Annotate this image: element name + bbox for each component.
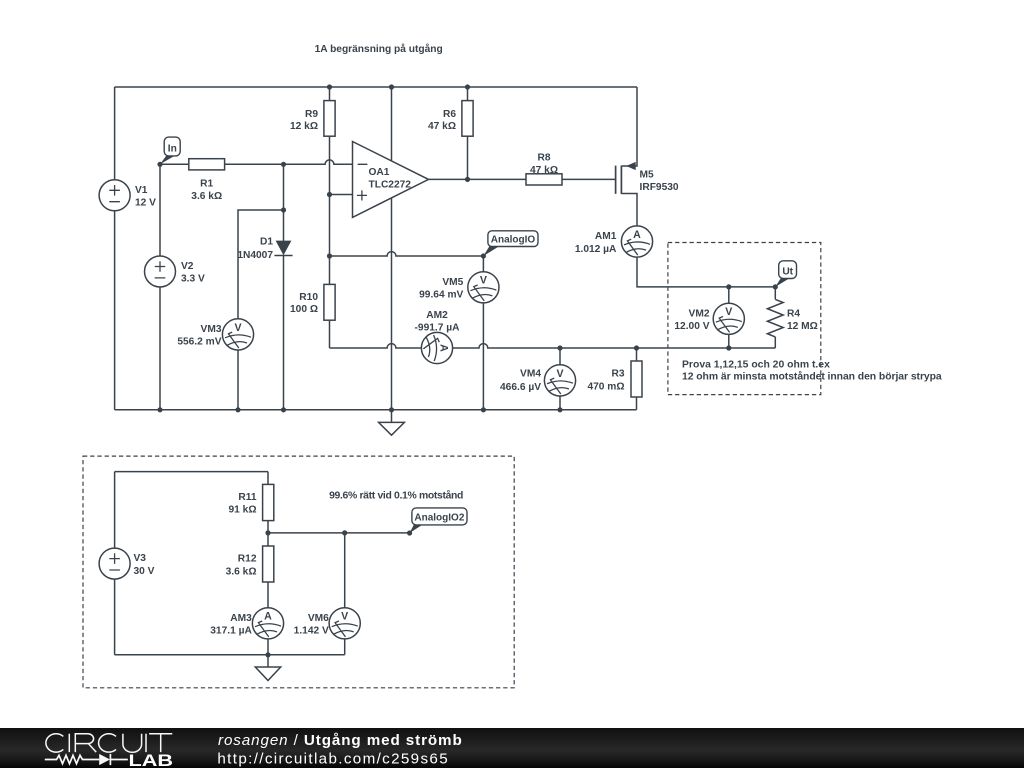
svg-text:IRF9530: IRF9530 <box>640 182 679 193</box>
svg-text:AM3: AM3 <box>230 613 252 624</box>
wire AM2 run y=348 with hops <box>330 344 776 348</box>
wire VM6 column <box>344 533 346 655</box>
svg-text:3.6 kΩ: 3.6 kΩ <box>226 566 257 577</box>
svg-text:V2: V2 <box>181 261 194 272</box>
voltage source V3 <box>99 548 155 579</box>
svg-text:12.00 V: 12.00 V <box>674 321 709 332</box>
svg-text:A: A <box>633 229 641 241</box>
svg-text:12 V: 12 V <box>135 198 156 209</box>
wire V3 stems <box>114 472 116 655</box>
wire bottom rail <box>115 409 637 411</box>
svg-text:AnalogIO: AnalogIO <box>491 235 536 246</box>
resistor R6 <box>428 101 473 137</box>
resistor R8 <box>526 153 562 185</box>
wire R9-R10 column <box>329 87 331 348</box>
svg-text:LAB: LAB <box>129 752 174 768</box>
resistor R1 <box>189 159 225 202</box>
svg-text:V3: V3 <box>134 553 147 564</box>
wire VM2 stems <box>728 287 730 348</box>
svg-text:12 kΩ: 12 kΩ <box>290 121 318 132</box>
svg-text:V: V <box>556 368 563 380</box>
logo resistor-diode squiggle <box>45 754 128 765</box>
svg-text:V: V <box>234 322 241 334</box>
wire M5 drain from top rail <box>621 87 637 166</box>
wire R6 column <box>467 87 469 179</box>
svg-text:A: A <box>438 344 450 352</box>
wire VM5 column <box>482 256 484 410</box>
logo CIRCUIT <box>46 734 172 753</box>
svg-text:V: V <box>725 306 732 318</box>
svg-text:R10: R10 <box>299 292 318 303</box>
svg-text:V: V <box>341 611 348 623</box>
svg-text:http://circuitlab.com/c259s65: http://circuitlab.com/c259s65 <box>217 750 449 767</box>
wire lower bottom rail <box>115 654 345 656</box>
svg-text:R4: R4 <box>787 308 800 319</box>
svg-text:1.012 µA: 1.012 µA <box>575 244 617 255</box>
wire lower top rail <box>115 471 268 473</box>
flag AnalogIO2 <box>407 508 467 536</box>
wire VM3 branch <box>238 210 284 410</box>
svg-text:V1: V1 <box>135 185 148 196</box>
svg-text:D1: D1 <box>260 237 273 248</box>
svg-text:Prova 1,12,15 och 20 ohm t.ex: Prova 1,12,15 och 20 ohm t.ex <box>682 360 830 371</box>
svg-text:R8: R8 <box>537 153 550 164</box>
wire AnalogIO2 net <box>268 532 410 534</box>
svg-text:AM1: AM1 <box>595 231 617 242</box>
transistor M5 <box>616 162 679 194</box>
wire ground column <box>391 87 393 410</box>
footer bar <box>0 728 1024 768</box>
svg-text:R9: R9 <box>305 109 318 120</box>
svg-text:12 MΩ: 12 MΩ <box>787 321 818 332</box>
svg-text:R12: R12 <box>238 554 257 565</box>
svg-text:OA1: OA1 <box>369 167 390 178</box>
svg-text:3.3 V: 3.3 V <box>181 274 205 285</box>
resistor R10 <box>290 284 335 320</box>
wire R8 to M5 gate <box>562 178 616 180</box>
resistor R3 <box>587 361 642 397</box>
resistor R4 <box>767 299 817 337</box>
wire left rail (V1 branch) <box>114 87 116 410</box>
wire AnalogIO net with hop over ground line <box>330 252 484 256</box>
wire op-amp output to R8 <box>429 178 527 180</box>
svg-text:100 Ω: 100 Ω <box>290 304 318 315</box>
svg-text:47 kΩ: 47 kΩ <box>530 165 558 176</box>
wire op-amp plus input <box>330 194 353 196</box>
svg-text:1A begränsning på utgång: 1A begränsning på utgång <box>315 43 443 55</box>
resistor R12 <box>226 546 274 582</box>
junction node dots upper <box>157 84 778 412</box>
svg-text:M5: M5 <box>640 170 654 181</box>
wire D1 branch vertical <box>283 164 285 409</box>
svg-text:R11: R11 <box>238 492 256 503</box>
ammeter AM3 <box>210 608 283 639</box>
svg-text:12 ohm är minsta motståndet in: 12 ohm är minsta motståndet innan den bö… <box>682 371 942 383</box>
svg-text:47 kΩ: 47 kΩ <box>428 121 456 132</box>
svg-text:AnalogIO2: AnalogIO2 <box>414 513 464 524</box>
svg-text:VM4: VM4 <box>520 369 541 380</box>
ground lower <box>255 655 280 681</box>
ground <box>379 410 405 435</box>
resistor R9 <box>290 101 335 137</box>
svg-text:In: In <box>168 144 177 155</box>
wire R11 stems <box>267 472 269 533</box>
wire VM4 stems <box>559 348 561 410</box>
voltmeter VM3 <box>177 319 253 350</box>
svg-text:R1: R1 <box>200 179 213 190</box>
svg-text:VM3: VM3 <box>201 324 222 335</box>
dashed experiment box <box>668 243 821 395</box>
flag Ut <box>775 261 796 287</box>
voltmeter VM6 <box>294 608 361 639</box>
svg-text:91 kΩ: 91 kΩ <box>229 505 257 516</box>
wire top rail <box>115 86 637 88</box>
svg-text:rosangen / Utgång med strömb: rosangen / Utgång med strömb <box>218 732 463 749</box>
wire R1 output to op-amp minus with hop over R9 line <box>225 160 353 164</box>
resistor R11 <box>229 484 274 520</box>
svg-text:99.6% rätt vid 0.1% motstånd: 99.6% rätt vid 0.1% motstånd <box>329 490 463 502</box>
junction node dots lower <box>265 530 347 657</box>
voltmeter VM4 <box>500 365 576 396</box>
svg-text:R6: R6 <box>443 109 456 120</box>
voltmeter VM5 <box>419 272 499 303</box>
dashed lower box <box>83 456 514 688</box>
flag In <box>160 137 180 164</box>
ammeter AM2 <box>415 310 461 364</box>
svg-text:V: V <box>480 275 487 287</box>
voltage source V2 <box>145 256 205 287</box>
wire AM1 to Ut node <box>637 257 775 287</box>
svg-text:317.1 µA: 317.1 µA <box>210 626 252 637</box>
svg-text:466.6 µV: 466.6 µV <box>500 382 541 393</box>
wire AM3 to bottom <box>267 639 269 655</box>
svg-text:-991.7 µA: -991.7 µA <box>415 322 461 333</box>
svg-text:1N4007: 1N4007 <box>237 250 273 261</box>
wire R3 stems <box>636 348 638 410</box>
svg-text:1.142 V: 1.142 V <box>294 626 329 637</box>
svg-text:VM5: VM5 <box>442 277 463 288</box>
svg-text:AM2: AM2 <box>426 310 448 321</box>
svg-text:Ut: Ut <box>782 266 793 277</box>
svg-text:99.64 mV: 99.64 mV <box>419 290 463 301</box>
flag AnalogIO <box>483 231 538 256</box>
svg-text:TLC2272: TLC2272 <box>369 180 412 191</box>
svg-text:556.2 mV: 556.2 mV <box>177 337 221 348</box>
voltmeter VM2 <box>674 303 744 334</box>
wire R12 stems <box>267 533 269 608</box>
svg-text:3.6 kΩ: 3.6 kΩ <box>191 191 222 202</box>
voltage source V1 <box>99 180 156 211</box>
wire In node to V2 and R1 <box>160 164 189 409</box>
op-amp OA1 <box>353 142 429 218</box>
wire R4 stems <box>774 287 776 348</box>
svg-text:R3: R3 <box>611 369 624 380</box>
svg-text:470 mΩ: 470 mΩ <box>587 381 624 392</box>
ammeter AM1 <box>575 226 653 257</box>
svg-text:VM6: VM6 <box>308 613 329 624</box>
svg-text:VM2: VM2 <box>689 308 710 319</box>
svg-text:A: A <box>264 611 272 623</box>
wire M5 source to AM1 <box>621 194 637 226</box>
diode D1 <box>237 237 292 261</box>
svg-text:30 V: 30 V <box>134 566 155 577</box>
